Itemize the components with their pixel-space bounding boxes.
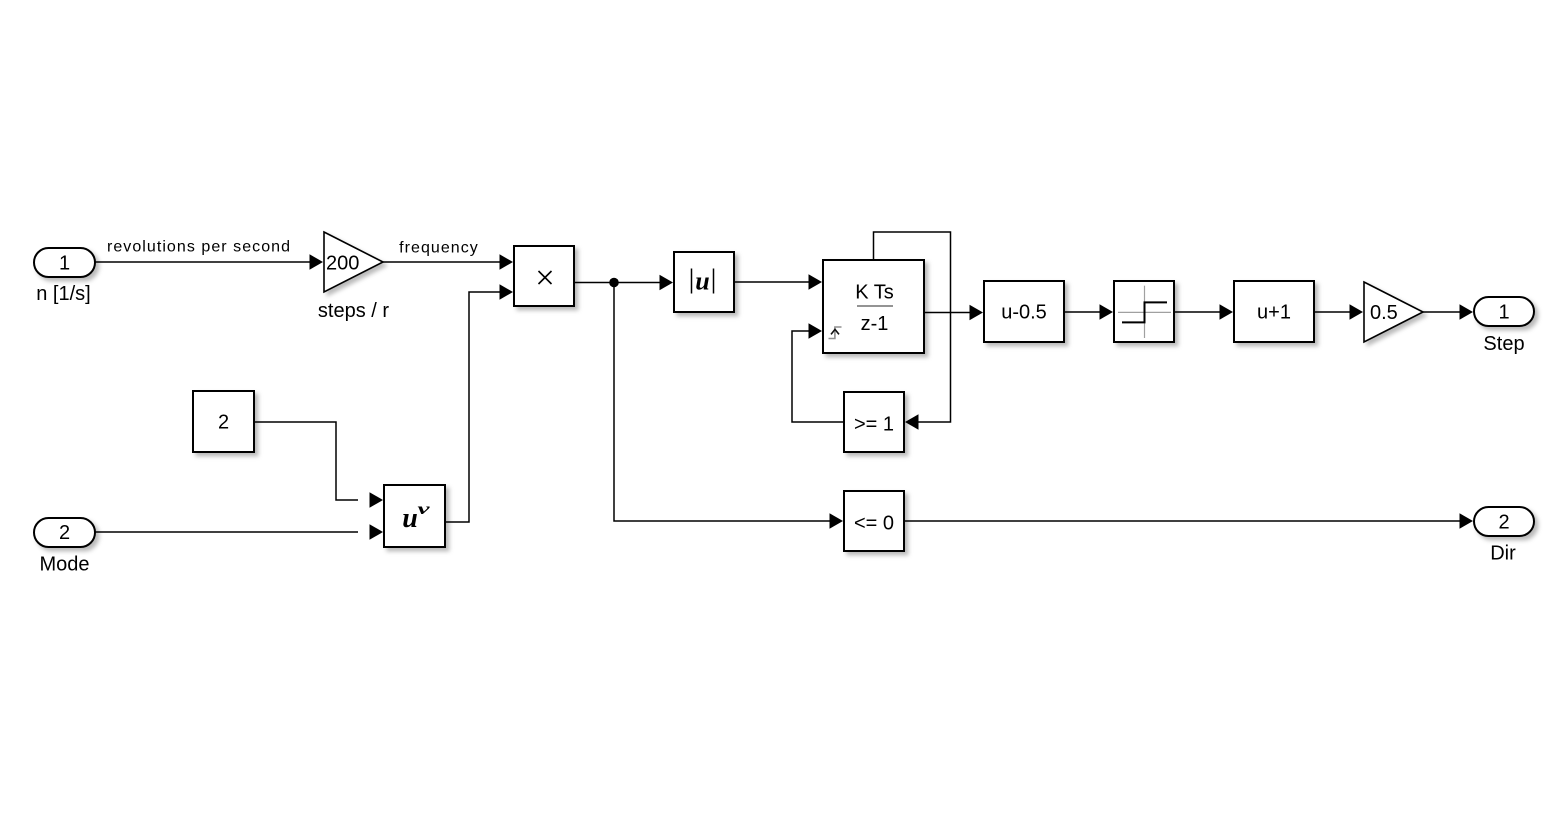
outport 1 (Step) bbox=[1474, 297, 1534, 326]
wire Integrator to u-0.5 bbox=[924, 312, 971, 314]
arrowhead into Sign bbox=[1100, 304, 1114, 320]
arrowhead into Gain 0.5 bbox=[1350, 304, 1364, 320]
state port loop wire (top) to >= 1 input bbox=[874, 232, 951, 422]
arrowhead into Abs bbox=[660, 275, 674, 291]
arrowhead into Gain200 bbox=[310, 254, 324, 270]
wire Gain 0.5 to Outport Step bbox=[1423, 311, 1461, 313]
arrowhead into u-0.5 bbox=[970, 305, 984, 321]
outport 2 (Dir) bbox=[1474, 507, 1534, 536]
arrowhead into trigger port bbox=[809, 323, 823, 339]
reset trigger icon bbox=[829, 327, 842, 339]
wire Abs to Integrator bbox=[734, 281, 810, 283]
svg-text:>= 1: >= 1 bbox=[854, 414, 894, 436]
wire Product to Abs bbox=[574, 282, 661, 284]
arrowhead into Integrator in bbox=[809, 274, 823, 290]
wire Sign to u+1 bbox=[1174, 311, 1221, 313]
svg-text:Dir: Dir bbox=[1490, 543, 1516, 565]
wire <= 0 to Outport Dir bbox=[904, 520, 1461, 522]
arrowhead into <= 0 bbox=[830, 513, 844, 529]
wire Constant2 to Power in1 bbox=[254, 422, 358, 500]
arrowhead into Outport Step bbox=[1460, 304, 1474, 320]
bias block u-0.5 bbox=[984, 281, 1064, 342]
arrowhead into Product in1 bbox=[500, 254, 514, 270]
wire Power out up to Product in2 bbox=[445, 292, 501, 522]
arrowhead into u+1 bbox=[1220, 304, 1234, 320]
constant block 2 bbox=[193, 391, 254, 452]
arrowhead into >= 1 (pointing left) bbox=[905, 414, 919, 430]
arrowhead into Outport Dir bbox=[1460, 513, 1474, 529]
relational operator <= 0 bbox=[844, 491, 904, 551]
svg-text:u+1: u+1 bbox=[1257, 302, 1291, 324]
inport 1 (n [1/s]) bbox=[34, 248, 95, 277]
svg-text:<= 0: <= 0 bbox=[854, 513, 894, 535]
discrete-time integrator K Ts/(z-1) bbox=[823, 260, 924, 353]
product block x bbox=[514, 246, 574, 306]
bias block u+1 bbox=[1234, 281, 1314, 342]
relational operator >= 1 bbox=[844, 392, 904, 452]
arrowhead into Product in2 bbox=[500, 284, 514, 300]
svg-text:2: 2 bbox=[218, 412, 229, 434]
gain block 200 (steps / r) bbox=[324, 232, 383, 292]
sign block bbox=[1114, 281, 1174, 342]
svg-text:u: u bbox=[402, 503, 418, 534]
svg-text:2: 2 bbox=[59, 522, 70, 544]
wire Gain200 to Product bbox=[383, 261, 501, 263]
abs block |u| bbox=[674, 252, 734, 312]
arrowhead into Power in2 bbox=[370, 524, 384, 540]
svg-text:2: 2 bbox=[1498, 512, 1509, 534]
branch wire down to <= 0 bbox=[614, 283, 831, 522]
wire Inport1 to Gain200 bbox=[95, 261, 312, 263]
svg-text:Step: Step bbox=[1483, 333, 1524, 355]
svg-text:revolutions per second: revolutions per second bbox=[107, 239, 291, 256]
svg-text:z-1: z-1 bbox=[861, 313, 889, 335]
feedback wire >= 1 out to trigger port bbox=[792, 331, 844, 422]
svg-text:u-0.5: u-0.5 bbox=[1001, 302, 1047, 324]
svg-text:1: 1 bbox=[59, 253, 70, 275]
arrowhead into Power in1 bbox=[370, 492, 384, 508]
svg-text:v: v bbox=[418, 501, 432, 518]
math power block u^v bbox=[384, 485, 445, 547]
svg-text:0.5: 0.5 bbox=[1370, 302, 1398, 324]
junction node dot bbox=[609, 278, 619, 288]
gain block 0.5 bbox=[1364, 282, 1423, 342]
svg-text:u: u bbox=[695, 267, 709, 296]
svg-text:Mode: Mode bbox=[39, 554, 89, 576]
svg-text:1: 1 bbox=[1498, 302, 1509, 324]
wire u-0.5 to Sign bbox=[1064, 311, 1101, 313]
inport 2 (Mode) bbox=[34, 518, 95, 547]
svg-text:K Ts: K Ts bbox=[855, 282, 894, 304]
svg-text:steps / r: steps / r bbox=[318, 300, 389, 322]
svg-text:n [1/s]: n [1/s] bbox=[36, 283, 90, 305]
svg-text:200: 200 bbox=[326, 253, 359, 275]
wire Inport2 Mode to Power in2 bbox=[95, 531, 358, 533]
wire u+1 to Gain 0.5 bbox=[1314, 311, 1351, 313]
svg-text:frequency: frequency bbox=[399, 240, 479, 257]
